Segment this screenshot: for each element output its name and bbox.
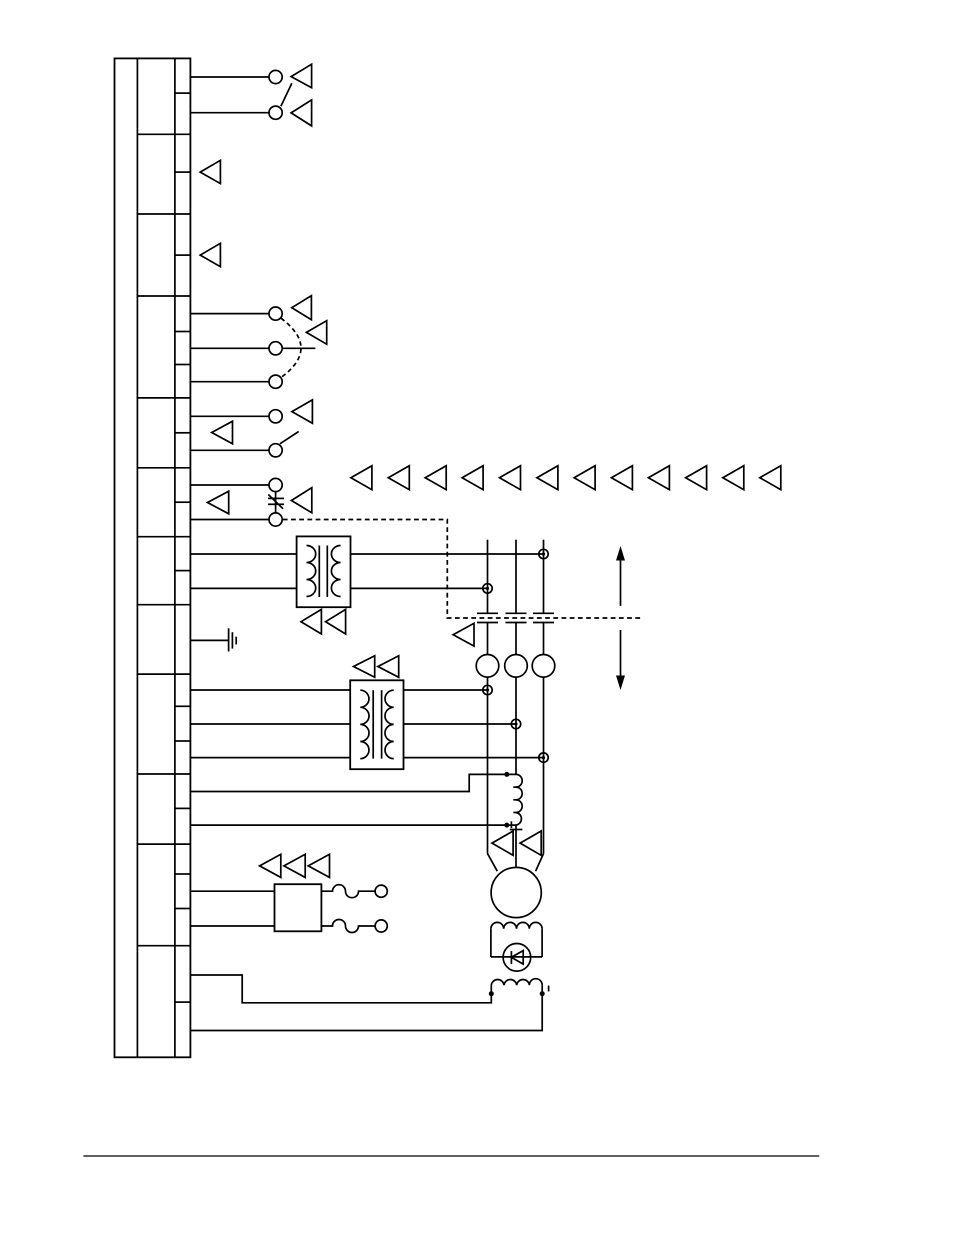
stub tick xyxy=(548,986,550,992)
wire transformer T1 secondary 2 to contactor phase A xyxy=(351,587,488,589)
fuse F1 terminal circle xyxy=(375,885,387,897)
switch S1 upper contact circle xyxy=(269,70,282,83)
terminal block TB1 inner column line xyxy=(136,58,138,1057)
wire to rotary switch S2 contact 1 xyxy=(190,313,269,315)
wire flag triangle xyxy=(291,488,311,513)
wire transformer T1 secondary 1 to contactor phase C xyxy=(351,553,544,555)
switch S3 upper contact circle xyxy=(269,410,282,423)
footer rule xyxy=(83,1155,819,1157)
contactor phase A wire upper xyxy=(487,540,489,614)
contactor K1 pole A contact bars xyxy=(477,612,498,614)
run capacitor winding bumps xyxy=(491,979,542,985)
phase B wire coil to motor xyxy=(515,825,517,867)
wire winding right to TB1 xyxy=(190,994,542,1031)
wire flag triangle xyxy=(208,491,229,514)
thermostat TH1 upper terminal circle xyxy=(269,478,282,491)
transformer T2 secondary winding xyxy=(385,690,394,758)
contactor K1 pole B contact bars xyxy=(506,612,527,614)
wire TB1 to fuse block input 1 xyxy=(190,890,274,892)
wire TB1 to coil top (stepped) xyxy=(190,774,516,791)
contactor phase C wire lower xyxy=(543,623,545,655)
coil cusp ticks xyxy=(513,786,517,788)
wire TB1 to transformer T1 primary 1 xyxy=(190,553,296,555)
switch S3 blade xyxy=(280,432,299,444)
wire to switch S3 upper contact xyxy=(190,415,269,417)
junction dot xyxy=(504,823,509,828)
wire TB1 to transformer T2 input 1 xyxy=(190,689,350,691)
phase C wire to motor xyxy=(543,677,545,854)
thermal protector diode bar xyxy=(510,951,512,964)
wire flag triangle xyxy=(260,854,281,877)
dashed control linkage from TH1 to contactor xyxy=(283,520,643,619)
contactor phase A wire lower xyxy=(487,623,489,655)
wire flag triangle xyxy=(212,421,233,444)
transformer T2 core bars xyxy=(372,690,374,758)
wire to switch S1 lower contact xyxy=(190,112,269,114)
rotary switch S2 contact 3 circle xyxy=(269,375,282,388)
fuse F1 xyxy=(321,885,375,898)
wire transformer T2 output 3 to phase C junction xyxy=(404,757,544,759)
wire flag triangle xyxy=(520,831,541,855)
wire flag triangle xyxy=(378,656,399,678)
phase B wire to coil xyxy=(515,677,517,774)
terminal block TB1 main cell divisions xyxy=(137,134,190,945)
wire flag triangle xyxy=(354,656,375,678)
fuse F2 xyxy=(321,920,375,933)
thermostat TH1 link xyxy=(275,492,277,513)
thermostat TH1 lower terminal circle xyxy=(269,513,282,526)
wire flag triangle xyxy=(292,296,312,320)
wire flag triangle xyxy=(200,243,220,266)
crossing tick on phase B xyxy=(510,829,523,831)
wire flag triangle xyxy=(291,100,312,126)
thermal protector circle xyxy=(503,944,531,972)
compressor motor M1 circle xyxy=(491,867,541,917)
rotary switch S2 wiper arm xyxy=(282,347,315,349)
wire TB1 to winding left (stepped) xyxy=(190,975,491,1003)
relay coil L1 on phase B xyxy=(516,774,522,825)
wire to switch S1 upper contact xyxy=(190,76,269,78)
wire flag triangle xyxy=(326,609,346,634)
thermostat TH1 slash xyxy=(268,495,283,509)
overload heater phase C circle xyxy=(532,655,555,678)
switch S3 lower contact circle xyxy=(269,444,282,457)
transformer T1 core bars xyxy=(318,546,320,598)
crankcase heater right lead xyxy=(541,929,543,957)
crankcase heater element bumps xyxy=(491,922,542,928)
rotary switch S2 travel dashed arc xyxy=(281,318,301,377)
terminal dot phase A lower xyxy=(483,685,492,694)
wire TB1 to transformer T2 input 2 xyxy=(190,723,350,725)
wire flag triangle xyxy=(292,400,313,423)
rotary switch S2 contact 2 circle xyxy=(269,342,282,355)
terminal dot phase A top xyxy=(483,584,492,593)
transformer T2 primary winding xyxy=(360,690,369,758)
phase A slant lead into motor xyxy=(488,854,498,872)
wire to thermostat TH1 lower terminal xyxy=(190,519,269,521)
wire flag triangle xyxy=(306,321,326,345)
contactor phase B wire upper xyxy=(515,540,517,614)
transformer T1 primary winding xyxy=(307,546,316,597)
wire TB1 to ground xyxy=(190,639,228,641)
wire flag triangle xyxy=(200,160,220,183)
transformer T1 box xyxy=(297,536,351,607)
thermal protector link wire xyxy=(491,956,542,958)
terminal dot phase C top xyxy=(539,549,548,558)
wire to switch S3 lower contact xyxy=(190,449,269,451)
raise lower arrow up xyxy=(620,559,622,606)
terminal block TB1 small terminal cell divisions xyxy=(175,93,191,1002)
terminal block TB1 terminal column line xyxy=(174,58,176,1057)
coil lead tick xyxy=(510,821,512,828)
wire TB1 to fuse block input 2 xyxy=(190,925,274,927)
contactor K1 pole C contact bars xyxy=(533,612,554,614)
overload heater phase B circle xyxy=(505,655,528,678)
terminal dot phase B lower xyxy=(511,719,520,728)
wire flag triangle xyxy=(284,854,305,877)
wire TB1 to transformer T1 primary 2 xyxy=(190,587,296,589)
rotary switch S2 contact 1 circle xyxy=(269,307,282,320)
terminal dot phase C lower xyxy=(539,753,548,762)
wire flag triangle xyxy=(291,64,312,88)
switch S1 lower contact circle xyxy=(269,106,282,119)
wire flag triangle xyxy=(492,831,513,855)
phase A wire to motor xyxy=(487,677,489,854)
thermostat TH1 contact bar upper xyxy=(268,497,284,499)
terminal block TB1 outer frame xyxy=(115,58,191,1057)
fuse block FB1 box xyxy=(275,884,322,931)
junction dot xyxy=(504,772,509,777)
fuse F2 terminal circle xyxy=(375,920,387,932)
thermal protector diode triangle xyxy=(511,951,523,965)
overload heater phase A circle xyxy=(476,655,499,678)
phase C slant lead into motor xyxy=(536,854,544,872)
wire flag triangle xyxy=(453,623,474,646)
wire to rotary switch S2 contact 3 xyxy=(190,381,269,383)
transformer T1 secondary winding xyxy=(331,546,340,597)
winding right lead xyxy=(541,985,543,994)
wire flag triangle xyxy=(308,854,329,877)
winding left lead xyxy=(490,985,492,994)
wire flag triangle xyxy=(301,609,321,634)
contactor phase B wire lower xyxy=(515,623,517,655)
crankcase heater left lead xyxy=(490,929,492,957)
switch S1 blade xyxy=(281,83,292,106)
wire to thermostat TH1 upper terminal xyxy=(190,484,269,486)
wire transformer T2 output 2 to phase B junction xyxy=(404,723,517,725)
contactor phase C wire upper xyxy=(543,540,545,614)
wire TB1 to transformer T2 input 3 xyxy=(190,757,350,759)
wire TB1 to coil bottom xyxy=(190,824,516,826)
ground xyxy=(228,628,230,651)
raise lower arrow down xyxy=(620,630,622,677)
wire flag triangle row xyxy=(351,466,781,490)
wire to rotary switch S2 contact 2 xyxy=(190,347,269,349)
wire transformer T2 output 1 to phase A junction xyxy=(404,689,488,691)
junction dot xyxy=(489,991,494,996)
thermostat TH1 contact bar lower xyxy=(268,503,284,505)
transformer T2 box xyxy=(350,680,403,769)
junction dot xyxy=(540,991,545,996)
